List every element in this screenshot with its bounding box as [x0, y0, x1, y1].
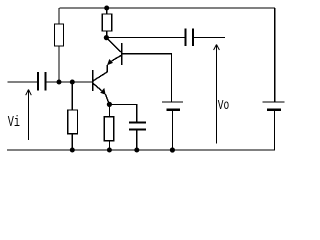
- node dot V1/ground rail: [170, 147, 175, 152]
- resistor RE: [104, 104, 113, 150]
- transistor Q2 emitter with arrow: [107, 55, 122, 65]
- wire node A to capacitor C2: [106, 37, 184, 39]
- capacitor C2: [185, 28, 225, 46]
- wire right vertical from rail to battery V2: [274, 8, 276, 102]
- wire top supply rail: [60, 7, 275, 9]
- transistor Q1 emitter with arrow: [93, 83, 110, 104]
- wire base of Q1: [47, 81, 93, 83]
- capacitor C1 (input): [8, 72, 46, 91]
- transistor Q2 base lead wire to battery V1: [122, 54, 172, 102]
- resistor R1: [55, 8, 64, 82]
- svg-text:Vi: Vi: [8, 113, 20, 131]
- node dot top rail / R3: [104, 6, 109, 11]
- node dot R2/ground rail: [70, 148, 75, 153]
- resistor R2: [68, 82, 78, 150]
- battery V1: [162, 102, 183, 150]
- node dot CE/ground rail: [134, 148, 139, 153]
- label Vo arrow: [214, 45, 220, 144]
- wire Q1 emitter to capacitor CE: [109, 104, 136, 122]
- node dot RE/ground rail: [107, 148, 112, 153]
- svg-text:Vo: Vo: [218, 97, 229, 113]
- transistor Q1 base bar: [92, 70, 94, 91]
- transistor Q2 base bar: [121, 43, 123, 65]
- node A dot (R3 / Q2 collector / output): [104, 35, 109, 40]
- label Vi arrow: [26, 90, 32, 141]
- node dot base/R2: [70, 80, 75, 85]
- capacitor CE (bypass): [129, 123, 146, 150]
- battery V2: [263, 102, 285, 150]
- wire Q2 emitter to Q1 collector: [93, 65, 107, 81]
- node dot base/R1: [57, 80, 62, 85]
- resistor R3: [102, 8, 112, 36]
- node dot Q1 emitter: [107, 102, 112, 107]
- wire bottom ground rail: [7, 149, 275, 151]
- transistor Q2 collector lead: [106, 38, 121, 53]
